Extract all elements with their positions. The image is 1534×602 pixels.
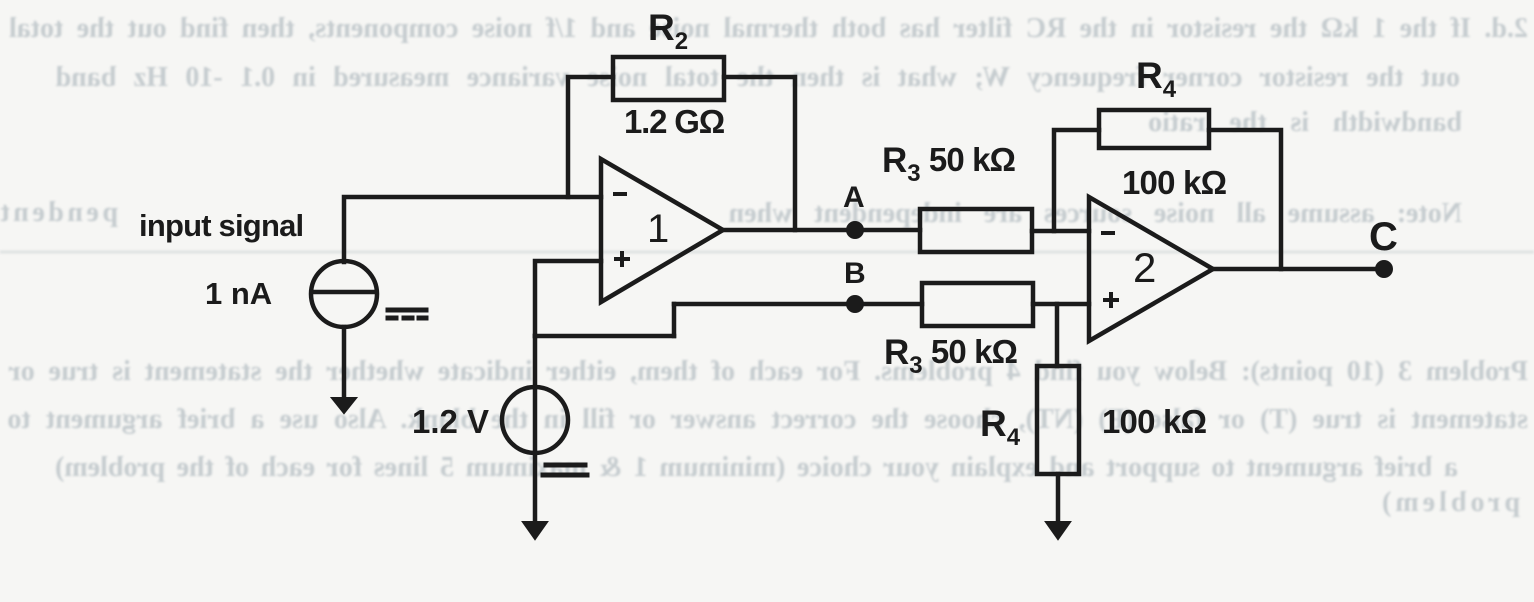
wire: current source top lead to op-amp 1 inverting input	[344, 197, 601, 262]
node B	[846, 295, 864, 313]
DC symbol (next to current source)	[388, 310, 426, 318]
svg-text:100 kΩ: 100 kΩ	[1122, 164, 1227, 201]
wire: node B line to R3 (bottom)	[674, 302, 922, 307]
bleed ruled line	[0, 251, 1534, 254]
svg-text:A: A	[843, 181, 865, 214]
ground (below voltage source)	[523, 522, 547, 539]
svg-text:2.d. If the 1 kΩ the resistor: 2.d. If the 1 kΩ the resistor in the RC …	[9, 13, 1528, 44]
node C	[1375, 260, 1393, 278]
svg-text:1.2 V: 1.2 V	[412, 403, 489, 440]
resistor R4 (to ground)	[1037, 366, 1079, 474]
wire: R4 bottom lead	[1056, 474, 1061, 524]
wire: through voltage source down to ground	[533, 336, 538, 524]
op-amp U2 minus sign	[1101, 231, 1115, 235]
wire: R3 top right side to op-amp 2 inverting input	[1032, 229, 1089, 234]
op-amp U1 minus sign	[613, 192, 627, 196]
svg-text:1.2 GΩ: 1.2 GΩ	[624, 103, 725, 140]
svg-text:statement is true (T) or false: statement is true (T) or false (F) (NT),…	[7, 404, 1528, 435]
wire: tap down to R4 grounding resistor	[1055, 304, 1060, 366]
wire: feedback tap up to R2 (left side)	[568, 77, 613, 197]
ground (below current source)	[332, 398, 356, 413]
wire: op-amp 1 output to R3 (top), node A	[723, 228, 920, 233]
svg-text:input signal: input signal	[139, 208, 303, 243]
svg-text:problem): problem)	[1378, 487, 1520, 518]
svg-text:C: C	[1369, 215, 1398, 259]
voltage source V1 (1.2 V)	[502, 387, 568, 453]
op-amp U1	[601, 159, 723, 302]
svg-text:100 kΩ: 100 kΩ	[1102, 403, 1207, 440]
wire: bottom jog over to node B riser	[535, 334, 674, 339]
wire: current source bottom lead	[342, 327, 347, 400]
wire: R3 bottom right side to op-amp 2 non-inverting input	[1033, 302, 1089, 307]
wire: R4 right side down to op-amp 2 output	[1209, 130, 1281, 269]
op-amp U2 plus sign	[1103, 292, 1119, 308]
svg-text:Problem 3 (10 points): Below y: Problem 3 (10 points): Below you find 4 …	[8, 356, 1528, 387]
svg-text:R3 50 kΩ: R3 50 kΩ	[882, 141, 1016, 187]
resistor R3 (top)	[920, 209, 1032, 252]
resistor R4 (feedback)	[1099, 110, 1209, 148]
wire: R2 right side down to op-amp 1 output	[724, 77, 795, 230]
wire: op-amp 1 non-inverting input to voltage source node	[535, 261, 601, 336]
wire: feedback tap up to R4 top (left side)	[1054, 130, 1099, 231]
resistor R2	[613, 57, 724, 100]
op-amp U1 plus sign	[614, 251, 630, 267]
DC symbol (below voltage source)	[543, 465, 587, 475]
resistor R3 (bottom)	[922, 283, 1033, 326]
svg-text:pendent: pendent	[0, 197, 118, 228]
node A	[846, 221, 864, 239]
ground (below R4)	[1046, 522, 1070, 539]
svg-text:B: B	[844, 257, 866, 290]
svg-text:a brief argument to support an: a brief argument to support and explain …	[55, 452, 1458, 483]
wire: op-amp 2 output to node C	[1213, 267, 1384, 272]
svg-text:2: 2	[1133, 244, 1156, 291]
wire: riser up to node B line	[672, 304, 677, 336]
op-amp U2	[1089, 197, 1213, 341]
svg-text:1 nA: 1 nA	[205, 276, 272, 311]
svg-text:1: 1	[647, 207, 669, 251]
current source I1 (1 nA)	[311, 261, 377, 327]
